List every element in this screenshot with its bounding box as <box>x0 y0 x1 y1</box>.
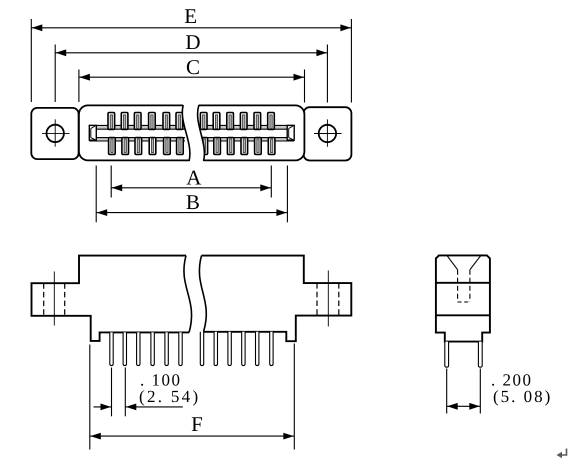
contact 5 lower (top view) <box>164 138 171 155</box>
contact 12 lower (top view) <box>268 138 275 155</box>
contact 4 lower (top view) <box>149 138 156 155</box>
dimension E extension line left <box>30 19 32 102</box>
hidden hole lines right flange <box>317 283 339 316</box>
slot end cap right <box>287 125 294 140</box>
contact 1 upper (top view) <box>108 113 115 130</box>
contact slot lower band right section <box>201 138 295 141</box>
contact 11 lower (top view) <box>255 138 262 155</box>
dimension F line with arrows <box>90 433 294 440</box>
hidden slot left line <box>457 270 459 302</box>
pin 1 (front view) <box>110 332 113 365</box>
dimension .200 extension line right <box>479 369 481 414</box>
contact 5 upper (top view) <box>163 113 170 130</box>
hidden slot right line <box>469 270 471 302</box>
contact slot upper band right section <box>201 125 295 129</box>
contact 8 lower (top view) <box>214 138 221 155</box>
centerline right hole (front view) <box>327 271 329 327</box>
contact 9 upper (top view) <box>227 113 234 130</box>
mounting hole right crosshair <box>314 119 342 146</box>
mounting ear right (top view) <box>304 107 352 160</box>
slot end cap left <box>89 125 96 140</box>
dimension .100 extension line right <box>124 368 126 417</box>
contact 8 upper (top view) <box>213 113 220 130</box>
break line left (front view) <box>184 256 192 333</box>
pin 7 (front view) <box>200 332 203 366</box>
pin 5 (front view) <box>165 332 168 365</box>
entry funnel right line <box>470 256 481 270</box>
break gap fill (top view) <box>182 104 204 161</box>
dimension C extension line right <box>304 70 306 103</box>
svg-text:E: E <box>184 4 197 28</box>
side view pin right <box>478 342 482 368</box>
dimension C line with arrows <box>79 74 305 81</box>
pin 9 (front view) <box>228 332 231 366</box>
pin 4 (front view) <box>151 332 154 365</box>
contact 11 upper (top view) <box>254 113 261 130</box>
svg-text:B: B <box>186 190 200 214</box>
pin 11 (front view) <box>256 332 259 366</box>
dimension B extension line left <box>95 166 97 223</box>
dimension D line with arrows <box>55 49 327 56</box>
contact 6 upper (top view) <box>176 113 183 130</box>
dimension .200 extension line left <box>446 369 448 414</box>
contact 6 lower (top view) <box>177 138 184 155</box>
contact 12 upper (top view) <box>268 113 275 130</box>
mounting hole left circle <box>47 125 64 142</box>
mounting hole left crosshair <box>42 119 70 146</box>
dimension B line with arrows <box>96 209 287 216</box>
hidden hole lines left flange <box>44 283 65 316</box>
dimension C extension line left <box>78 70 80 103</box>
dimension D extension line left <box>54 45 56 103</box>
svg-text:D: D <box>185 30 200 54</box>
pin 12 (front view) <box>270 332 273 366</box>
pin 2 (front view) <box>123 332 126 365</box>
svg-text:F: F <box>191 412 203 436</box>
svg-text:(2. 54): (2. 54) <box>139 387 200 406</box>
dimension A line with arrows <box>111 184 271 191</box>
dimension F extension line right <box>293 344 295 450</box>
side view parting line lower <box>436 314 490 316</box>
centerline left hole (front view) <box>53 272 55 326</box>
svg-text:A: A <box>186 165 202 189</box>
contact 10 lower (top view) <box>241 138 248 155</box>
contact 4 upper (top view) <box>149 113 156 130</box>
break line left (top view) <box>182 105 190 161</box>
dimension .100 arrows and leader <box>94 404 183 411</box>
dimension B extension line right <box>286 166 288 223</box>
return mark glyph <box>560 449 567 456</box>
dimension A extension line left <box>110 166 112 198</box>
entry funnel left line <box>447 256 457 270</box>
contact 10 upper (top view) <box>240 113 247 130</box>
break line right (top view) <box>198 105 205 161</box>
connector side view outline <box>436 255 490 341</box>
contact 3 upper (top view) <box>134 113 141 130</box>
svg-text:(5. 08): (5. 08) <box>493 387 552 406</box>
contact 3 lower (top view) <box>135 138 142 155</box>
break line right (front view) <box>199 256 206 332</box>
contact 2 upper (top view) <box>121 113 128 130</box>
dimension E extension line right <box>350 19 352 103</box>
side view pin left <box>445 342 449 368</box>
dimension F extension line left <box>89 345 91 450</box>
contact 7 lower (top view) <box>201 138 208 155</box>
pin 10 (front view) <box>242 332 245 366</box>
hidden slot bottom <box>458 301 470 303</box>
pin 3 (front view) <box>137 332 140 365</box>
mounting ear left (top view) <box>31 108 78 159</box>
connector front view right part outline <box>202 256 352 342</box>
dimension A extension line right <box>270 166 272 198</box>
connector front view left part outline <box>32 256 190 341</box>
svg-text:C: C <box>186 55 200 79</box>
contact 1 lower (top view) <box>109 138 116 155</box>
contact 7 upper (top view) <box>200 113 207 130</box>
contact 9 lower (top view) <box>227 138 234 155</box>
pin 8 (front view) <box>214 332 217 366</box>
dimension E line with arrows <box>31 24 351 31</box>
side view parting line upper <box>436 282 490 284</box>
contact slot upper band left section <box>89 125 185 129</box>
connector body (top view) <box>79 105 305 160</box>
mounting hole right circle <box>319 125 336 142</box>
dimension .200 line with arrows <box>447 403 481 410</box>
pin 6 (front view) <box>179 332 182 365</box>
contact slot lower band left section <box>89 138 185 141</box>
dimension .100 extension line left <box>111 368 113 417</box>
dimension D extension line right <box>326 45 328 103</box>
contact 2 lower (top view) <box>122 138 129 155</box>
